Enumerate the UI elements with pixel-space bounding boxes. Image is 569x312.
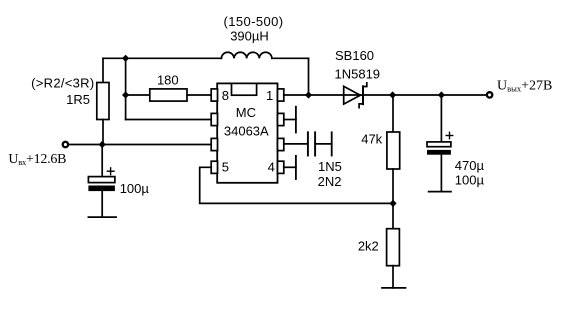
node G (feedback divider junction) [389,200,396,207]
wire pin 5 route to feedback node [200,167,393,203]
diode D1 triangle [344,86,361,104]
pin 2 square [278,113,284,125]
ground G6 (pin 4, rotated bar) [295,156,297,179]
svg-text:1N5819: 1N5819 [335,66,381,81]
svg-text:47k: 47k [361,131,382,146]
ground G3 (2k2) [382,287,406,289]
wire vertical drop x=125.6 (top rail to pin8 row) [125,58,127,95]
wire vertical from inductor corner down to pin1 rail [308,58,310,95]
diode D1 schottky cathode bar [362,86,364,104]
svg-text:5: 5 [222,159,229,174]
wire output node down to C3 [440,95,442,142]
svg-text:34063A: 34063A [224,124,269,139]
node F (output cap junction) [438,91,445,98]
wire 1R5 bottom to input rail [102,120,104,145]
wire input node down to C1 [101,145,103,177]
ground G1 (input cap) [88,216,116,218]
svg-text:Uвх+12.6В: Uвх+12.6В [8,152,66,167]
IC U1 MC34063A body [217,83,277,182]
wire 1R5 top (rail to resistor) [102,58,104,82]
node B (pin8 row junction) [122,91,129,98]
input terminal [63,142,68,147]
capacitor C3 470u top plate [427,142,451,147]
pin 3 square [278,138,284,150]
svg-text:1R5: 1R5 [66,92,90,107]
svg-text:1N5: 1N5 [318,159,342,174]
svg-text:4: 4 [268,159,275,174]
svg-text:100µ: 100µ [120,181,150,196]
svg-text:(150-500): (150-500) [224,14,284,29]
capacitor C1 plus sign [107,170,114,172]
capacitor C2 timing right plate [314,132,316,155]
wire C3 bottom to ground [440,155,442,192]
node D (inductor/pin1 junction) [305,91,312,98]
wire C1 bottom to ground [101,191,103,217]
resistor R1 1R5 [97,83,109,120]
wire top rail right segment (inductor to corner) [272,57,309,59]
capacitor C3 plus sign [446,135,453,137]
svg-text:470µ: 470µ [455,158,485,173]
wire 47k bottom to feedback node [392,169,394,203]
svg-text:8: 8 [222,88,229,103]
svg-text:1: 1 [266,88,273,103]
wire top rail left segment (1R5 top to inductor) [103,57,221,59]
svg-text:(>R2/<3R): (>R2/<3R) [31,76,94,91]
wire output node down to 47k [392,95,394,132]
IC U1 notch mark [232,83,257,95]
capacitor C2 timing left plate [307,132,309,155]
resistor R2 180 [150,89,187,101]
svg-text:2N2: 2N2 [318,174,342,189]
node A (top rail junction) [122,55,129,62]
ground G2 (output cap) [429,191,451,193]
pin 7 square [211,113,217,125]
wire to pin 7 [126,119,212,121]
wire pin 3 to timing capacitor [284,143,308,145]
svg-text:180: 180 [157,72,179,87]
svg-text:MC: MC [236,105,256,120]
inductor L1 390uH [221,52,272,58]
pin 5 square [211,161,217,173]
wire vertical x=125.6 down to pin7 row [125,95,127,120]
pin 8 square [211,89,217,101]
capacitor C1 100u bottom plate [88,186,115,192]
wire 2k2 bottom to ground [392,266,394,288]
wire 180 resistor to pin 8 [187,94,211,96]
pin 6 square [211,138,217,150]
output terminal [487,92,492,97]
svg-text:SB160: SB160 [335,48,374,63]
svg-text:100µ: 100µ [455,173,485,188]
capacitor C3 470u bottom plate [427,150,451,155]
node E (47k top junction) [389,91,396,98]
svg-text:Uвых+27В: Uвых+27В [497,78,552,93]
diode D1 cathode bottom hook [359,104,363,108]
wire pin 1 to output rail [284,94,344,96]
node C (input rail junction) [99,141,106,148]
wire node to 180 resistor [126,94,150,96]
wire pin 2 stub [284,119,296,121]
capacitor C1 100u top plate [88,177,115,183]
wire input rail (terminal to pin 6) [70,144,212,146]
svg-text:390µH: 390µH [230,29,269,44]
wire timing capacitor to ground [315,143,332,145]
wire output rail through diode to terminal [344,94,487,96]
ground G5 (timing cap, rotated bar) [331,132,333,155]
svg-text:2k2: 2k2 [358,238,379,253]
pin 1 square [278,89,284,101]
resistor R3 47k [387,132,400,169]
wire feedback node down to 2k2 [392,203,394,228]
wire pin 4 stub [284,166,296,168]
diode D1 cathode top hook [363,83,367,87]
ground G4 (pin 2, rotated bar) [295,107,297,133]
resistor R4 2k2 [387,229,400,266]
pin 4 square [278,161,284,173]
